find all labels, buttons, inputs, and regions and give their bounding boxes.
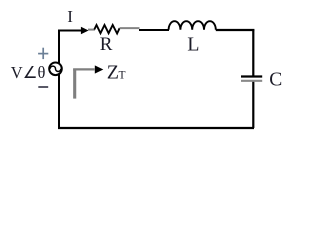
source sine wave	[50, 66, 61, 71]
wire gray lead right of resistor	[120, 27, 140, 29]
wire resistor to inductor	[139, 29, 169, 31]
inductor L humps	[169, 21, 216, 30]
wire right vertical upper (above capacitor)	[252, 30, 254, 77]
wire left vertical	[58, 30, 60, 129]
arrowhead current I	[81, 27, 89, 35]
Z_T arrowhead	[95, 65, 104, 73]
Z_T gray elbow vertical	[73, 69, 76, 98]
svg-text:R: R	[100, 34, 113, 55]
source circle U (AC source)	[49, 63, 62, 76]
svg-text:C: C	[269, 70, 282, 91]
Z_T gray elbow horizontal	[73, 68, 95, 70]
label plus	[38, 48, 48, 59]
wire bottom	[58, 127, 254, 129]
svg-text:T: T	[119, 70, 126, 82]
svg-text:V∠θ: V∠θ	[11, 63, 46, 82]
svg-text:Z: Z	[107, 61, 119, 83]
svg-text:L: L	[187, 34, 199, 56]
capacitor C top plate	[241, 75, 262, 77]
wire right vertical lower (below capacitor)	[252, 81, 254, 129]
capacitor C bottom plate	[241, 80, 262, 82]
svg-text:I: I	[67, 7, 73, 26]
wire gray lead left of resistor	[88, 29, 95, 31]
wire inductor to top-right corner	[216, 29, 255, 31]
wire top-left segment	[58, 30, 84, 32]
label minus	[38, 86, 48, 88]
resistor R zigzag	[94, 25, 119, 34]
